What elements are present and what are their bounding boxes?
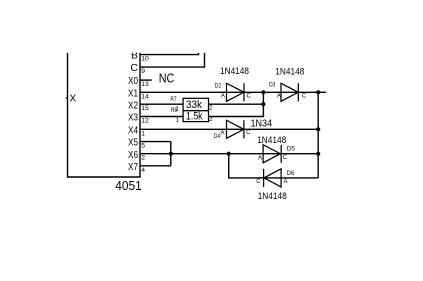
svg-text:A: A (284, 179, 288, 185)
svg-text:2: 2 (141, 155, 145, 162)
svg-text:4: 4 (141, 167, 145, 174)
svg-text:1N4148: 1N4148 (258, 191, 287, 202)
svg-text:1: 1 (141, 130, 145, 137)
svg-text:X6: X6 (128, 149, 138, 161)
node dot X5-X7 join (169, 152, 173, 156)
node dot rail top (316, 90, 320, 94)
wire R8 output to X1 node vertical (209, 92, 264, 116)
svg-text:X1: X1 (128, 87, 138, 99)
wire X4 to D4 anode (140, 128, 318, 130)
diode D3 1N4148 (281, 83, 298, 101)
pin X tick (66, 97, 68, 99)
crop whiteout above schematic top (0, 0, 423, 53)
wire X3 to R8 (140, 116, 183, 118)
svg-text:D2: D2 (215, 84, 222, 90)
svg-text:X3: X3 (128, 112, 138, 124)
diode D2 1N4148 (227, 83, 245, 101)
svg-text:X2: X2 (128, 99, 138, 111)
svg-text:14: 14 (141, 93, 149, 100)
svg-text:D6: D6 (287, 170, 295, 177)
wire X1 to D2 anode (140, 91, 326, 93)
svg-text:A: A (258, 156, 262, 162)
node dot rail D5 (316, 152, 320, 156)
svg-text:C: C (283, 155, 288, 161)
svg-text:33k: 33k (186, 99, 202, 111)
svg-text:1N4148: 1N4148 (275, 67, 304, 78)
diode D6 1N4148 (pointing left) (264, 169, 282, 187)
svg-text:A: A (221, 130, 225, 136)
svg-text:10: 10 (141, 56, 149, 63)
wire X2 to R7 (140, 103, 183, 105)
resistor R8 1.5k box (183, 111, 208, 122)
IC U1 4051 box (68, 53, 141, 177)
svg-text:15: 15 (141, 105, 149, 112)
wire X7 (140, 165, 171, 167)
wire X5-X6-X7 vertical join (170, 142, 172, 166)
svg-text:D3: D3 (269, 82, 276, 88)
svg-text:4051: 4051 (115, 178, 142, 193)
resistor R7 33k box (183, 98, 208, 110)
wire X6 to D5 anode (140, 153, 318, 155)
diode D5 1N4148 (263, 145, 281, 163)
wire D6 branch down from X6 node (229, 154, 319, 178)
svg-text:R7: R7 (170, 97, 177, 103)
svg-text:13: 13 (141, 81, 149, 88)
svg-text:1N4148: 1N4148 (220, 66, 249, 77)
svg-text:A: A (277, 94, 281, 100)
svg-text:X4: X4 (128, 124, 138, 136)
svg-text:X7: X7 (128, 161, 138, 173)
svg-text:C: C (130, 62, 138, 74)
svg-text:C: C (246, 130, 251, 136)
svg-text:5: 5 (141, 143, 145, 150)
svg-text:A: A (221, 94, 225, 100)
svg-text:1.5k: 1.5k (186, 111, 203, 123)
svg-text:C: C (302, 94, 307, 100)
svg-text:C: C (247, 94, 252, 100)
wire C pin 9 (140, 53, 205, 67)
node dot D6 branch (227, 152, 231, 156)
wire R7 to node (209, 103, 264, 105)
svg-text:NC: NC (159, 71, 175, 86)
wire B pin 10 (140, 53, 199, 55)
wire X5 (140, 141, 171, 143)
node dot rail D4 (316, 127, 320, 131)
diode D4 1N34 (227, 120, 244, 138)
svg-text:X0: X0 (128, 75, 138, 87)
svg-text:12: 12 (141, 118, 149, 125)
svg-text:D5: D5 (287, 145, 295, 152)
svg-text:X5: X5 (128, 137, 138, 149)
svg-text:1N34: 1N34 (250, 118, 272, 130)
svg-text:C: C (256, 179, 261, 185)
wire X0 NC stub (140, 79, 152, 81)
svg-text:9: 9 (141, 68, 145, 75)
node dot D2-D3 junction (261, 90, 265, 94)
node dot R7 junction (261, 102, 265, 106)
svg-text:1N4148: 1N4148 (257, 135, 286, 146)
wire right rail (317, 92, 319, 178)
svg-text:X: X (70, 94, 77, 105)
